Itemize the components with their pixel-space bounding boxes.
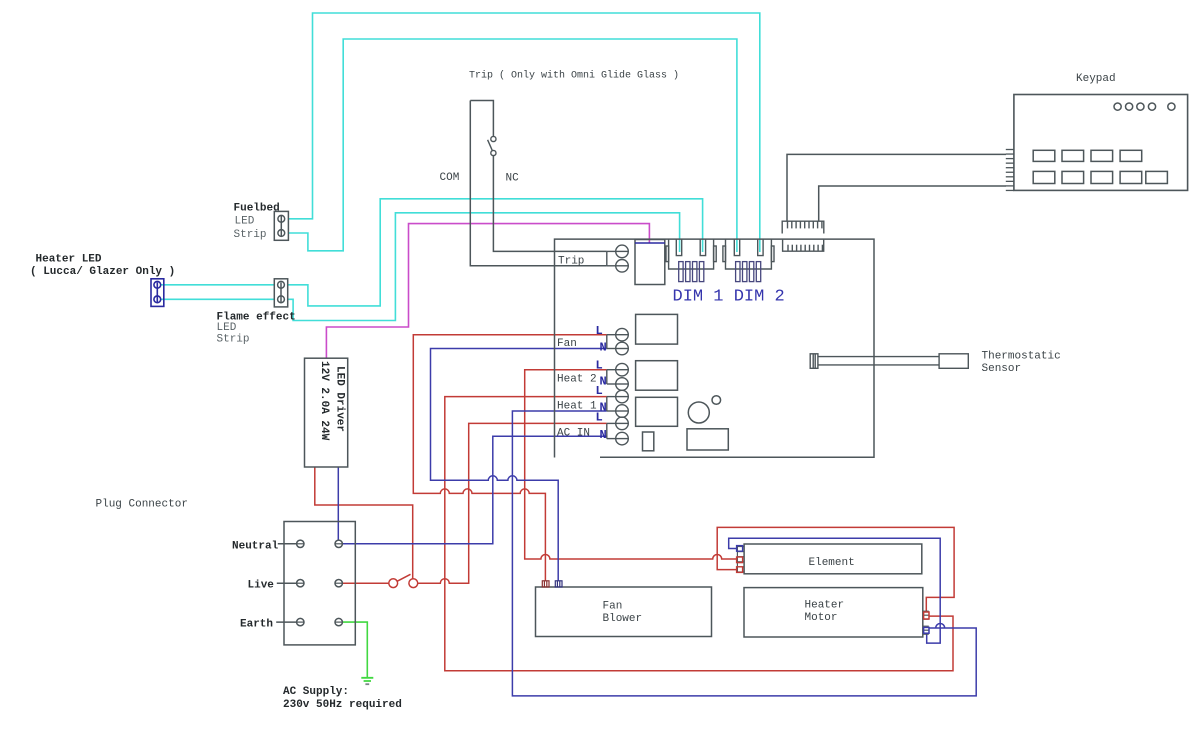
- switch S2 live: [389, 574, 418, 587]
- wire COM branch to Trip lower terminal: [470, 101, 607, 266]
- wire red element bottom pin chain to heater motor pin: [717, 527, 954, 611]
- svg-text:12V 2.0A 24W: 12V 2.0A 24W: [318, 361, 330, 441]
- svg-text:Element: Element: [809, 557, 855, 569]
- wire blue Fan N to fan blower: [431, 349, 607, 581]
- wire red Live terminal to switch: [343, 582, 389, 584]
- led D1: [712, 396, 721, 405]
- svg-text:COM: COM: [440, 172, 460, 184]
- label AC Supply: [283, 686, 402, 711]
- fan blower pin N: [555, 581, 562, 587]
- buzzer B1: [688, 402, 709, 423]
- svg-text:Heat 2: Heat 2: [557, 374, 597, 386]
- relay K1 fan: [636, 314, 678, 344]
- control board PCB outline: [555, 239, 875, 457]
- svg-text:Strip: Strip: [234, 229, 267, 241]
- svg-text:230v 50Hz required: 230v 50Hz required: [283, 699, 402, 711]
- terminal block Fan: [607, 328, 629, 354]
- connector J-keypad lower comb: [783, 240, 824, 252]
- LED driver U1: [305, 358, 348, 467]
- label Fuelbed LED Strip: [234, 203, 280, 242]
- terminal block Trip: [607, 245, 629, 272]
- heater motor pin N: [924, 627, 929, 633]
- heater motor M2: [744, 588, 923, 637]
- capacitor C1: [643, 432, 654, 451]
- wire blue LED Driver neutral: [337, 467, 339, 540]
- terminal block Heat 2: [607, 363, 629, 390]
- fan blower pin L: [542, 581, 549, 587]
- svg-text:Plug Connector: Plug Connector: [96, 499, 188, 511]
- plug connector P1: [276, 522, 355, 645]
- label Fan L N: [557, 324, 607, 355]
- heating element R1: [744, 544, 922, 574]
- svg-text:DIM 1 DIM 2: DIM 1 DIM 2: [673, 288, 785, 307]
- wire blue element top pin to heater motor pin: [729, 538, 941, 643]
- relay K2 heat2: [636, 361, 678, 391]
- label AC IN L N: [557, 411, 607, 443]
- svg-text:L: L: [596, 324, 603, 338]
- label Heat 2 L N: [557, 359, 607, 389]
- wire NC branch to Trip upper terminal: [470, 101, 607, 252]
- label Heater LED ( Lucca/ Glazer Only ): [30, 254, 175, 279]
- svg-text:N: N: [600, 428, 607, 442]
- wire blue Heat 1 N to heater motor pin: [512, 411, 976, 696]
- svg-text:Earth: Earth: [240, 619, 273, 631]
- wire cyan Fuelbed+ to DIM2 right prong: [288, 13, 759, 252]
- keypad ribbon teeth: [1006, 150, 1014, 191]
- svg-text:Heater LED: Heater LED: [36, 254, 102, 266]
- wire red Heat 1 L to heater motor pin: [445, 397, 953, 671]
- element pin N: [737, 546, 743, 552]
- svg-text:LED: LED: [217, 322, 237, 334]
- wire keypad to board connector 2: [819, 186, 1006, 221]
- svg-text:AC IN: AC IN: [557, 428, 590, 440]
- svg-text:N: N: [600, 341, 607, 355]
- element pin L1: [737, 567, 743, 573]
- thermostatic sensor TH1: [810, 354, 968, 369]
- connector DIM 2: [723, 240, 774, 282]
- wire keypad to board connector 1: [787, 154, 1006, 221]
- wire red switch to AC IN L: [418, 423, 607, 583]
- svg-text:Trip: Trip: [558, 256, 584, 268]
- connector J-keypad upper comb: [782, 221, 824, 233]
- svg-text:LED: LED: [235, 216, 255, 228]
- svg-text:Heater: Heater: [805, 600, 845, 612]
- terminal block Heat 1: [607, 390, 629, 417]
- svg-text:Strip: Strip: [217, 334, 250, 346]
- label Heat 1 L N: [557, 384, 607, 415]
- connector DIM 1: [666, 240, 716, 282]
- svg-text:Live: Live: [248, 580, 275, 592]
- svg-text:L: L: [596, 384, 603, 398]
- relay K3 heat1: [636, 397, 678, 426]
- wire green Earth: [343, 622, 368, 677]
- wire magenta LED Driver to dimmer relay: [326, 224, 649, 359]
- terminal block AC IN: [607, 417, 629, 445]
- svg-text:( Lucca/ Glazer Only ): ( Lucca/ Glazer Only ): [30, 266, 175, 278]
- element pin L2: [737, 557, 743, 563]
- svg-text:L: L: [596, 359, 603, 373]
- element pin comb: [737, 546, 744, 574]
- connector Flame effect LED strip: [274, 279, 287, 307]
- wire cyan Heater LED to Flame effect strip (bottom): [161, 298, 274, 300]
- svg-text:LED Driver: LED Driver: [334, 366, 346, 432]
- wire red LED Driver live to switch: [315, 467, 413, 579]
- connector Heater LED: [151, 279, 164, 307]
- wire cyan Fuelbed- to DIM2 left prong: [288, 39, 737, 252]
- wire cyan Flame effect- to DIM1 left prong: [288, 213, 680, 321]
- heater motor pin L: [924, 612, 929, 619]
- keypad module: [1014, 95, 1188, 191]
- svg-text:Heat 1: Heat 1: [557, 401, 597, 413]
- wire cyan Heater LED to Flame effect strip (top): [161, 284, 274, 286]
- fan blower M1: [536, 587, 712, 637]
- svg-text:Fan: Fan: [557, 338, 577, 350]
- relay K0 dimmer input box: [635, 240, 665, 285]
- ground symbol: [361, 678, 373, 684]
- wire blue Neutral terminal to AC IN N: [343, 436, 607, 544]
- svg-text:Neutral: Neutral: [232, 541, 279, 553]
- wire cyan Flame effect+ to DIM1 right prong: [288, 199, 703, 306]
- svg-text:Trip ( Only with Omni Glide Gl: Trip ( Only with Omni Glide Glass ): [469, 70, 679, 82]
- wire red Heat 2 L to element middle pin: [525, 370, 738, 559]
- svg-text:Blower: Blower: [603, 613, 643, 625]
- svg-text:Keypad: Keypad: [1076, 73, 1116, 85]
- switch S1 trip contacts: [488, 136, 496, 155]
- component box X1: [687, 429, 728, 450]
- label Thermostatic Sensor: [982, 351, 1061, 376]
- svg-text:NC: NC: [506, 173, 520, 185]
- svg-text:Thermostatic: Thermostatic: [982, 351, 1061, 363]
- svg-text:L: L: [596, 411, 603, 425]
- label Flame effect LED Strip: [217, 312, 296, 346]
- svg-text:Sensor: Sensor: [982, 363, 1022, 375]
- svg-text:Fuelbed: Fuelbed: [234, 203, 280, 215]
- svg-text:AC Supply:: AC Supply:: [283, 686, 349, 698]
- connector Fuelbed LED strip: [274, 211, 288, 240]
- svg-text:Fan: Fan: [603, 601, 623, 613]
- heater motor pin comb: [923, 611, 929, 634]
- svg-text:Motor: Motor: [805, 612, 838, 624]
- wire red Fan L to fan blower: [413, 335, 607, 581]
